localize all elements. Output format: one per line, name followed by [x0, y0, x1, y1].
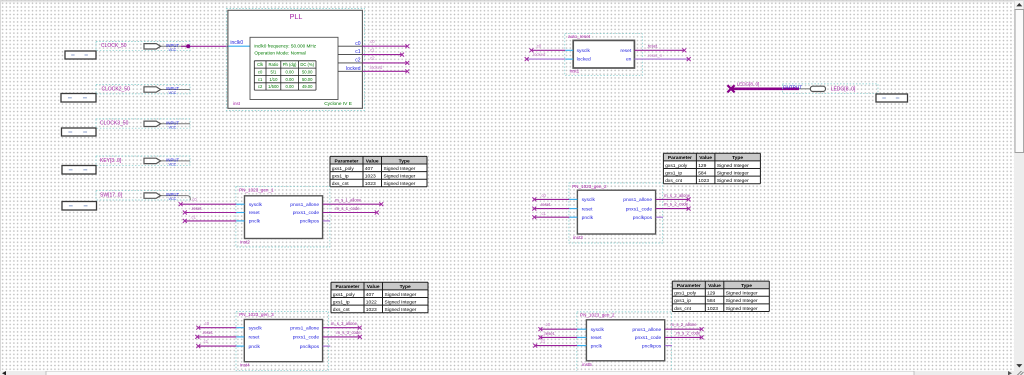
svg-text:reset: reset	[591, 335, 603, 341]
wire net .locked from PLL locked	[362, 65, 409, 73]
svg-text:pnclkpos: pnclkpos	[300, 344, 320, 350]
svg-text:584: 584	[707, 298, 715, 304]
svg-text:pnclkpos: pnclkpos	[642, 343, 662, 349]
svg-text:m_s_2_code: m_s_2_code	[664, 201, 689, 206]
svg-text:Cyclone IV E: Cyclone IV E	[324, 101, 352, 107]
svg-text:Signed Integer: Signed Integer	[717, 163, 749, 169]
svg-text:locked: locked	[577, 57, 591, 63]
wire net .reset. into inst3	[532, 202, 569, 210]
svg-text:Signed Integer: Signed Integer	[385, 292, 417, 298]
svg-text:Signed Integer: Signed Integer	[384, 181, 416, 187]
svg-text:.c2: .c2	[369, 56, 375, 61]
svg-text:Value: Value	[708, 283, 721, 289]
wire net .c0 into inst2	[179, 197, 237, 206]
svg-text:.reset_n: .reset_n	[647, 53, 663, 58]
svg-text:1/500: 1/500	[268, 84, 279, 89]
svg-text:407: 407	[366, 292, 374, 298]
svg-text:.reset.: .reset.	[540, 202, 552, 207]
svg-text:49.00: 49.00	[302, 84, 313, 89]
svg-text:c2: c2	[355, 58, 361, 64]
svg-text:Value: Value	[367, 284, 380, 290]
svg-text:pnxs1_allone: pnxs1_allone	[290, 325, 319, 331]
v-scrollbar thumb	[1015, 10, 1024, 153]
PN_1023_gen_3 inst4	[236, 311, 329, 370]
input pin CLOCK3_50	[96, 119, 190, 129]
svg-text:.c0: .c0	[540, 193, 546, 198]
auto_reset inst1	[565, 34, 643, 76]
PN_1023_gen_1 inst2	[236, 187, 330, 247]
svg-text:.m_s_1_code.: .m_s_1_code.	[334, 206, 360, 211]
svg-text:pnxs1_code: pnxs1_code	[293, 210, 320, 216]
svg-text:gxs1_ip: gxs1_ip	[674, 298, 691, 304]
wire net .c1 from PLL c1	[362, 47, 404, 56]
PLL clock table	[254, 61, 316, 90]
svg-text:1023: 1023	[365, 181, 376, 187]
svg-text:5/1: 5/1	[270, 70, 276, 75]
svg-text:CLOCK_50: CLOCK_50	[101, 43, 127, 49]
svg-text:VCC: VCC	[169, 197, 177, 201]
parameter table PN_1023_gen_2	[663, 153, 760, 184]
wire net .c2 from PLL c2	[362, 56, 409, 65]
wire net .reset from auto_reset reset	[634, 43, 686, 52]
annotation box	[876, 94, 908, 102]
h-scrollbar thumb	[46, 371, 914, 375]
svg-text:Parameter: Parameter	[677, 283, 701, 289]
annotation box	[62, 202, 97, 211]
svg-text:gxs1_poly: gxs1_poly	[665, 163, 688, 169]
wire net m_s_2_allone from inst3	[656, 193, 691, 202]
resize grip	[1017, 370, 1024, 375]
svg-text:pnxs1_code: pnxs1_code	[293, 335, 320, 341]
svg-text:Type: Type	[732, 155, 743, 161]
svg-text:Signed Integer: Signed Integer	[385, 307, 417, 313]
svg-text:CLOCK2_50: CLOCK2_50	[102, 86, 131, 92]
svg-text:gxs1_poly: gxs1_poly	[332, 166, 355, 172]
wire net .reset. into inst5	[538, 331, 577, 340]
svg-text:.reset.: .reset.	[647, 43, 659, 48]
svg-text:.locked: .locked	[369, 65, 383, 70]
svg-text:.c1: .c1	[369, 47, 375, 52]
PLL port locked	[338, 66, 362, 72]
svg-text:.locked: .locked	[532, 52, 546, 57]
svg-text:pnxs1_allone: pnxs1_allone	[290, 202, 319, 208]
svg-text:c0: c0	[355, 41, 361, 47]
svg-text:reset: reset	[249, 210, 261, 216]
PLL altpll inst	[226, 9, 364, 111]
svg-text:.m_s_1_allone: .m_s_1_allone	[334, 197, 362, 202]
svg-text:Type: Type	[400, 284, 411, 290]
svg-text:m_s_2_allone: m_s_2_allone	[671, 322, 698, 327]
svg-text:c2: c2	[258, 84, 263, 89]
svg-text:locked: locked	[346, 66, 361, 72]
wire net .reset_n from auto_reset en	[634, 53, 690, 61]
svg-text:CLOCK3_50: CLOCK3_50	[100, 121, 129, 127]
svg-text:0.00: 0.00	[286, 84, 295, 89]
pnclkpos stub of inst2	[323, 220, 330, 222]
svg-text:PN_1023_gen_2: PN_1023_gen_2	[580, 313, 615, 318]
svg-text:1022: 1022	[366, 299, 377, 305]
svg-text:Signed Integer: Signed Integer	[726, 306, 758, 312]
wire net m_s_2_code from inst3	[656, 201, 691, 210]
wire net .c0 into inst3	[532, 193, 569, 201]
svg-text:Parameter: Parameter	[668, 155, 692, 161]
svg-text:auto_reset: auto_reset	[568, 34, 591, 39]
PN_1023_gen_2 inst3	[569, 183, 663, 243]
svg-text:Signed Integer: Signed Integer	[384, 174, 416, 180]
svg-text:VCC: VCC	[169, 48, 177, 52]
annotation box	[65, 51, 96, 59]
svg-text:OUTPUT: OUTPUT	[783, 85, 802, 90]
input pin CLOCK2_50	[96, 85, 190, 95]
svg-text:pnxs1_code: pnxs1_code	[635, 335, 662, 341]
svg-text:gxs1_ip: gxs1_ip	[332, 174, 349, 180]
wire net .reset. into inst4	[195, 330, 236, 339]
svg-text:.c0: .c0	[369, 39, 375, 44]
svg-text:c1: c1	[258, 77, 263, 82]
svg-text:0.00: 0.00	[286, 70, 295, 75]
svg-text:.reset.: .reset.	[543, 331, 555, 336]
input pin KEY[3..0]	[96, 156, 190, 166]
svg-text:pnxs1_allone: pnxs1_allone	[632, 327, 661, 333]
svg-text:.c0: .c0	[204, 321, 210, 326]
svg-text:Signed Integer: Signed Integer	[717, 170, 749, 176]
svg-text:LEDG[8..0]: LEDG[8..0]	[737, 82, 760, 87]
svg-text:Signed Integer: Signed Integer	[384, 166, 416, 172]
wire net .c1 into inst5	[533, 339, 577, 348]
svg-text:reset: reset	[249, 335, 261, 341]
wire net m_s_3_allone from inst4	[323, 321, 362, 330]
svg-text:sysclk: sysclk	[582, 197, 596, 203]
svg-text:Clk: Clk	[257, 62, 264, 67]
parameter table PN_1023_gen_1	[330, 156, 427, 187]
svg-text:.c0: .c0	[536, 43, 542, 48]
svg-text:dxs_cnt: dxs_cnt	[665, 178, 682, 184]
svg-text:.c1: .c1	[190, 215, 196, 220]
svg-text:Operation Mode: Normal: Operation Mode: Normal	[254, 50, 305, 55]
svg-text:.c1: .c1	[540, 339, 546, 344]
svg-text:DC (%): DC (%)	[300, 62, 314, 67]
svg-text:1023: 1023	[366, 307, 377, 313]
svg-text:.m_s_2_code: .m_s_2_code	[675, 330, 701, 335]
svg-text:gxs1_ip: gxs1_ip	[665, 170, 682, 176]
svg-text:reset: reset	[582, 206, 594, 212]
svg-text:KEY[3..0]: KEY[3..0]	[100, 158, 122, 164]
svg-text:.c0: .c0	[545, 322, 551, 327]
svg-text:pnxs1_code: pnxs1_code	[626, 206, 653, 212]
annotation box	[61, 94, 96, 103]
svg-text:LEDG[8..0]: LEDG[8..0]	[831, 87, 856, 93]
svg-text:Signed Integer: Signed Integer	[385, 299, 417, 305]
svg-text:inclk0: inclk0	[230, 40, 243, 46]
PLL port c0	[338, 41, 362, 47]
wire net .m_s_2_code from inst5	[665, 330, 704, 339]
svg-text:1023: 1023	[365, 174, 376, 180]
svg-text:reset: reset	[620, 48, 632, 54]
parameter table PN_1023_gen_2 inst5	[672, 281, 769, 312]
svg-text:0.00: 0.00	[286, 77, 295, 82]
svg-text:pnclk: pnclk	[591, 343, 603, 349]
svg-text:Type: Type	[399, 158, 410, 164]
svg-text:584: 584	[698, 170, 706, 176]
svg-text:dxs_cnt: dxs_cnt	[333, 307, 350, 313]
svg-text:gxs1_ip: gxs1_ip	[333, 299, 350, 305]
PLL port c1	[338, 49, 362, 55]
svg-text:Signed Integer: Signed Integer	[726, 291, 758, 297]
wire net .c1 into inst4	[196, 339, 236, 348]
svg-text:inst1: inst1	[570, 69, 580, 74]
svg-text:pnclkpos: pnclkpos	[633, 215, 653, 221]
svg-text:.reset.: .reset.	[202, 330, 214, 335]
svg-text:pnclk: pnclk	[582, 215, 594, 221]
svg-text:pnclk: pnclk	[249, 219, 261, 225]
vertical scrollbar	[1014, 0, 1024, 375]
input pin CLOCK_50	[96, 41, 190, 51]
svg-text:en: en	[626, 58, 632, 63]
svg-text:VCC: VCC	[169, 91, 177, 95]
svg-text:1023: 1023	[707, 306, 718, 312]
svg-text:inst3: inst3	[573, 235, 583, 240]
svg-text:Type: Type	[741, 283, 752, 289]
svg-text:sysclk: sysclk	[577, 48, 591, 54]
svg-text:50.00: 50.00	[302, 70, 313, 75]
wire net .locked into auto_reset locked	[525, 52, 566, 61]
svg-text:407: 407	[365, 166, 373, 172]
wire net .c0 into auto_reset sysclk	[529, 43, 565, 52]
wire net m_s_2_allone from inst5	[665, 322, 704, 331]
svg-text:50.00: 50.00	[302, 77, 313, 82]
svg-text:Signed Integer: Signed Integer	[726, 298, 758, 304]
parameter table PN_1023_gen_3	[331, 282, 428, 313]
svg-text:c0: c0	[258, 70, 263, 75]
svg-text:1/10: 1/10	[269, 77, 278, 82]
svg-text:c1: c1	[355, 49, 361, 55]
svg-text:dxs_cnt: dxs_cnt	[332, 181, 349, 187]
svg-text:.c1: .c1	[203, 339, 209, 344]
svg-text:VCC: VCC	[169, 125, 177, 129]
svg-text:inst4: inst4	[240, 363, 250, 368]
wire net .c1 into inst2	[183, 215, 236, 223]
svg-text:129: 129	[707, 291, 715, 297]
svg-text:dxs_cnt: dxs_cnt	[674, 306, 691, 312]
svg-text:.c0: .c0	[191, 197, 197, 202]
annotation box	[62, 166, 96, 175]
annotation box	[62, 128, 97, 136]
wire net .m_s_1_allone from inst2	[323, 197, 384, 206]
horizontal scrollbar	[0, 371, 1024, 375]
svg-text:Ratio: Ratio	[269, 62, 279, 67]
pnclkpos stub of inst3	[656, 216, 663, 218]
svg-text:m_s_2_allone: m_s_2_allone	[664, 193, 691, 198]
input pin SW[17..0]	[96, 191, 190, 201]
svg-text:inst: inst	[233, 101, 241, 106]
junction on CLOCK_50 net	[186, 44, 190, 48]
svg-text:gxs1_poly: gxs1_poly	[333, 292, 356, 298]
svg-text:.c1: .c1	[540, 211, 546, 216]
svg-text:inclk0 frequency: 50.000 MHz: inclk0 frequency: 50.000 MHz	[254, 43, 316, 48]
pnclkpos stub of inst5	[665, 345, 672, 347]
svg-text:129: 129	[698, 163, 706, 169]
PLL port c2	[338, 58, 362, 64]
svg-text:PLL: PLL	[290, 12, 303, 21]
svg-text:pnclk: pnclk	[249, 344, 261, 350]
svg-text:.m_s_3_code.: .m_s_3_code.	[335, 330, 361, 335]
svg-text:gxs1_poly: gxs1_poly	[674, 291, 697, 297]
svg-text:pnxs1_allone: pnxs1_allone	[623, 197, 652, 203]
svg-text:pnclkpos: pnclkpos	[300, 219, 320, 225]
svg-text:1023: 1023	[698, 178, 709, 184]
svg-text:PN_1023_gen_2: PN_1023_gen_2	[572, 184, 607, 189]
svg-text:VCC: VCC	[169, 162, 177, 166]
wire net .c0 into inst4	[196, 321, 236, 330]
svg-text:sysclk: sysclk	[591, 327, 605, 333]
svg-text:PN_1023_gen_3: PN_1023_gen_3	[239, 312, 274, 317]
svg-text:sysclk: sysclk	[249, 202, 263, 208]
wire net .m_s_1_code. from inst2	[323, 206, 379, 215]
wire net .c0 into inst5	[538, 322, 577, 331]
PN_1023_gen_2 inst5	[577, 312, 672, 372]
svg-text:SW[17..0]: SW[17..0]	[100, 193, 123, 199]
svg-text:Signed Integer: Signed Integer	[717, 178, 749, 184]
svg-text:Value: Value	[366, 158, 379, 164]
bus wire LEDG[8..0]	[727, 82, 799, 93]
svg-text:sysclk: sysclk	[249, 325, 263, 331]
svg-text:.reset.: .reset.	[191, 206, 203, 211]
svg-text:Value: Value	[699, 155, 712, 161]
wire CLOCK_50 to PLL inclk0	[181, 45, 228, 47]
svg-text:m_s_3_allone: m_s_3_allone	[331, 321, 358, 326]
output pin LEDG[8..0]	[782, 84, 878, 93]
svg-text:Parameter: Parameter	[335, 158, 359, 164]
pnclkpos stub of inst4	[323, 345, 331, 347]
svg-text:Parameter: Parameter	[336, 284, 360, 290]
wire net .m_s_3_code. from inst4	[323, 330, 362, 339]
svg-text:PN_1023_gen_1: PN_1023_gen_1	[239, 188, 274, 193]
svg-text:inst2: inst2	[240, 240, 250, 245]
wire net .reset. into inst2	[183, 206, 236, 215]
wire net .c1 into inst3	[532, 211, 569, 219]
svg-text:Ph (dg): Ph (dg)	[283, 62, 297, 67]
wire net .c0 from PLL c0	[362, 39, 409, 48]
svg-text:inst5: inst5	[582, 362, 592, 367]
